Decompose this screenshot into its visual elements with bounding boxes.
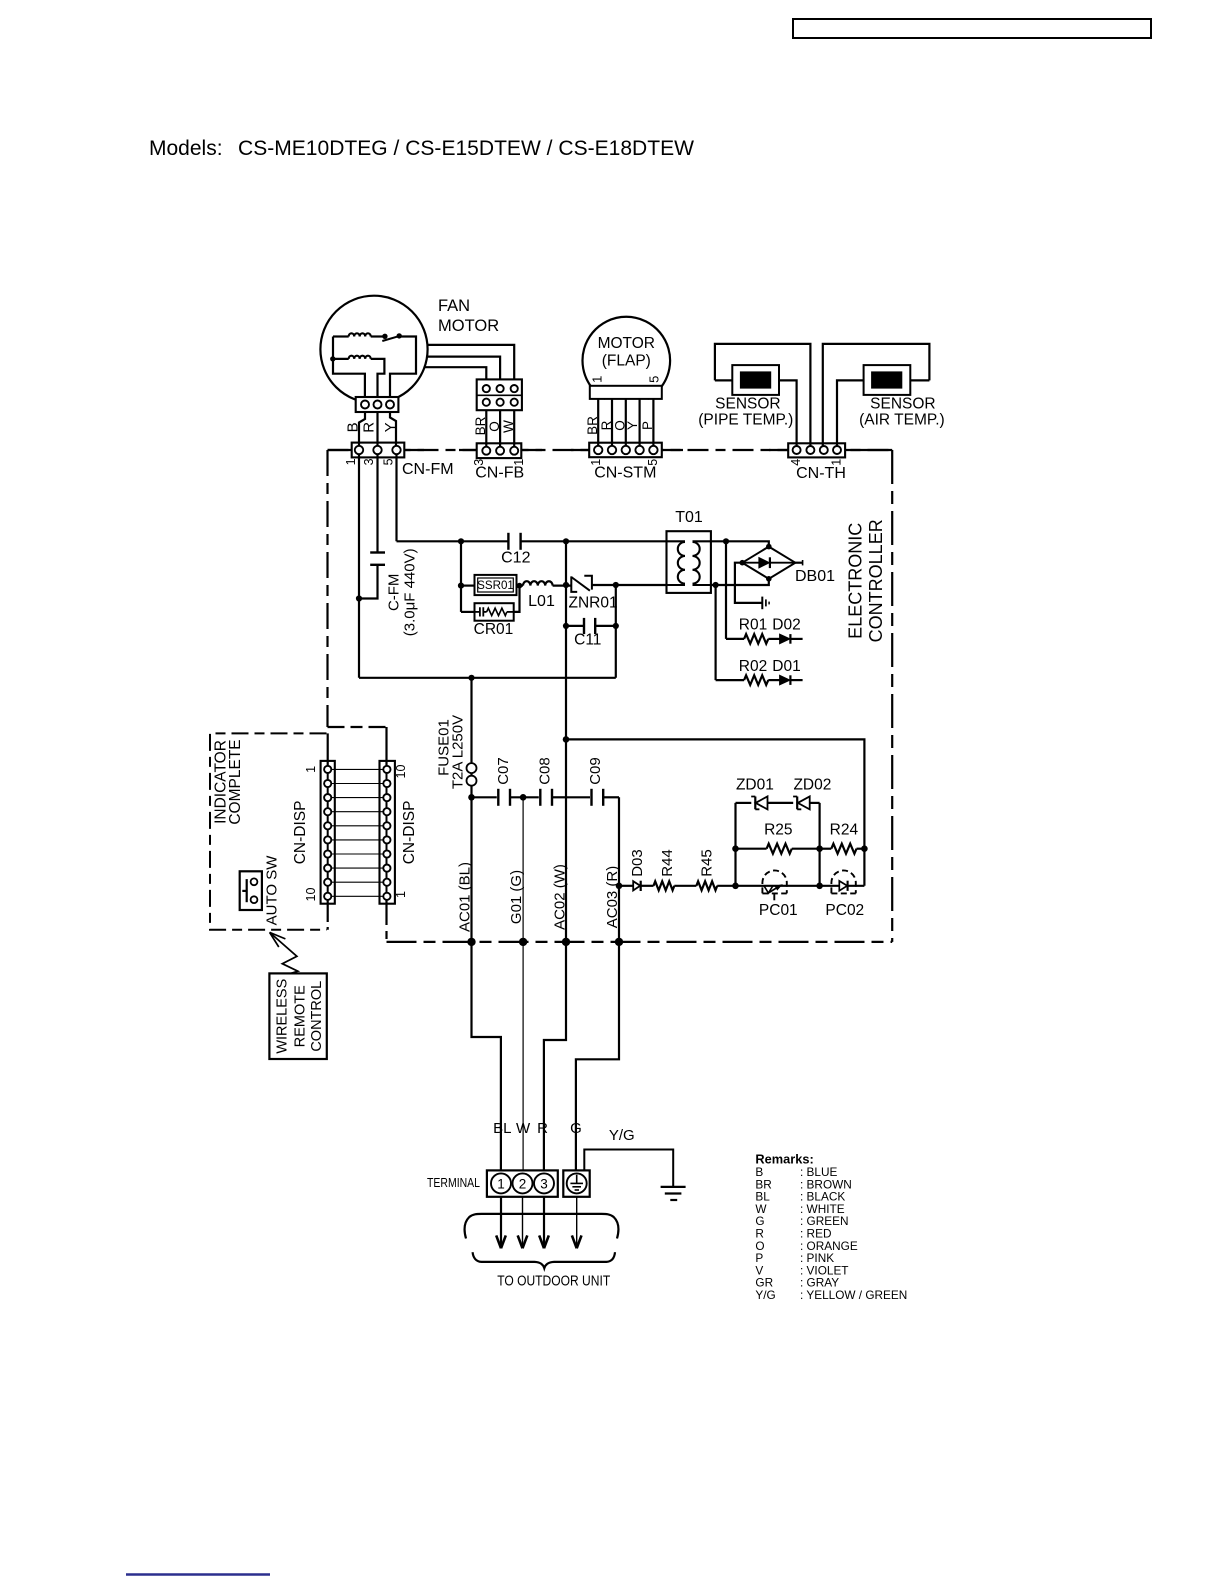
svg-text:CONTROL: CONTROL [309, 981, 325, 1052]
svg-text:3: 3 [472, 459, 486, 466]
svg-text:4: 4 [789, 459, 803, 466]
svg-text:COMPLETE: COMPLETE [227, 739, 244, 824]
svg-text:1: 1 [830, 459, 844, 466]
svg-text:BL: BL [493, 1120, 511, 1137]
svg-text:C09: C09 [587, 757, 604, 785]
svg-text:(AIR TEMP.): (AIR TEMP.) [859, 412, 945, 429]
svg-text:R25: R25 [764, 821, 792, 838]
svg-text:C-FM: C-FM [385, 574, 402, 612]
svg-text:CN-FB: CN-FB [475, 465, 524, 482]
svg-text:R02: R02 [739, 658, 767, 675]
svg-text:Y: Y [625, 421, 640, 430]
svg-text:(PIPE TEMP.): (PIPE TEMP.) [698, 412, 793, 429]
svg-text:1: 1 [512, 459, 526, 466]
svg-text:CN-FM: CN-FM [402, 461, 454, 478]
svg-text:G01 (G): G01 (G) [508, 870, 525, 924]
svg-text:5: 5 [382, 458, 396, 465]
svg-text:TO OUTDOOR UNIT: TO OUTDOOR UNIT [497, 1273, 610, 1289]
svg-text:D03: D03 [629, 849, 646, 877]
svg-text:MOTOR: MOTOR [598, 335, 655, 352]
svg-text:SSR01: SSR01 [477, 579, 514, 592]
svg-text:Y/G: Y/G [609, 1127, 635, 1144]
svg-text:R45: R45 [698, 849, 715, 877]
svg-text:R: R [537, 1120, 548, 1137]
svg-text:W: W [516, 1120, 531, 1137]
svg-text:Y: Y [382, 422, 399, 432]
svg-text:10: 10 [304, 888, 318, 902]
svg-text:3: 3 [362, 458, 376, 465]
svg-text:: YELLOW / GREEN: : YELLOW / GREEN [800, 1288, 907, 1302]
svg-text:R24: R24 [830, 821, 859, 838]
svg-text:Models:: Models: [149, 137, 223, 160]
svg-text:CS-ME10DTEG / CS-E15DTEW / CS-: CS-ME10DTEG / CS-E15DTEW / CS-E18DTEW [238, 136, 695, 160]
svg-text:B: B [344, 422, 361, 432]
svg-text:REMOTE: REMOTE [292, 985, 308, 1047]
svg-text:D02: D02 [772, 617, 800, 634]
svg-text:CN-DISP: CN-DISP [401, 801, 418, 865]
svg-text:1: 1 [344, 458, 358, 465]
svg-text:C08: C08 [536, 757, 553, 785]
svg-text:TERMINAL: TERMINAL [427, 1175, 480, 1190]
svg-text:G: G [570, 1120, 582, 1137]
svg-text:(FLAP): (FLAP) [602, 353, 651, 370]
svg-text:SENSOR: SENSOR [870, 396, 935, 413]
svg-text:5: 5 [646, 376, 661, 383]
svg-text:D01: D01 [772, 658, 800, 675]
svg-text:T01: T01 [675, 509, 703, 526]
svg-text:AC01 (BL): AC01 (BL) [457, 862, 474, 932]
svg-text:W: W [501, 420, 516, 433]
svg-text:C12: C12 [501, 550, 530, 567]
svg-text:1: 1 [394, 891, 408, 898]
svg-text:Y/G: Y/G [755, 1288, 775, 1302]
svg-text:R: R [599, 420, 614, 430]
svg-text:DB01: DB01 [795, 568, 835, 585]
svg-text:PC02: PC02 [825, 902, 864, 919]
svg-text:MOTOR: MOTOR [438, 317, 499, 335]
svg-text:5: 5 [646, 459, 660, 466]
svg-text:C11: C11 [574, 632, 601, 649]
svg-text:C07: C07 [495, 757, 512, 785]
svg-text:(3.0μF 440V): (3.0μF 440V) [401, 548, 418, 636]
svg-text:SENSOR: SENSOR [715, 396, 780, 413]
svg-text:CN-DISP: CN-DISP [292, 801, 309, 865]
svg-text:CN-STM: CN-STM [594, 465, 656, 482]
svg-text:ZD01: ZD01 [736, 776, 774, 793]
svg-text:R44: R44 [659, 849, 676, 877]
svg-text:O: O [487, 421, 502, 432]
svg-text:P: P [640, 421, 655, 430]
svg-text:1: 1 [304, 766, 318, 773]
svg-text:BR: BR [585, 416, 600, 435]
svg-text:WIRELESS: WIRELESS [275, 979, 291, 1054]
svg-text:3: 3 [540, 1176, 548, 1191]
svg-text:AC03 (R): AC03 (R) [604, 866, 621, 929]
svg-text:10: 10 [394, 765, 408, 779]
svg-text:R: R [361, 422, 378, 433]
svg-text:1: 1 [590, 376, 605, 383]
svg-text:CR01: CR01 [474, 621, 514, 638]
svg-text:ZD02: ZD02 [793, 776, 831, 793]
svg-text:CN-TH: CN-TH [796, 465, 846, 482]
svg-text:R01: R01 [739, 617, 767, 634]
svg-text:CONTROLLER: CONTROLLER [866, 519, 886, 642]
svg-text:FAN: FAN [438, 297, 470, 315]
svg-text:AUTO SW: AUTO SW [263, 855, 280, 926]
svg-text:2: 2 [519, 1176, 527, 1191]
svg-text:AC02 (W): AC02 (W) [552, 864, 569, 930]
svg-text:BR: BR [473, 416, 488, 435]
svg-text:T2A L250V: T2A L250V [449, 715, 466, 789]
svg-text:1: 1 [589, 459, 603, 466]
svg-text:1: 1 [497, 1176, 505, 1191]
svg-text:L01: L01 [528, 593, 555, 610]
svg-text:PC01: PC01 [759, 902, 798, 919]
svg-text:ELECTRONIC: ELECTRONIC [846, 523, 866, 639]
svg-text:ZNR01: ZNR01 [569, 594, 618, 611]
